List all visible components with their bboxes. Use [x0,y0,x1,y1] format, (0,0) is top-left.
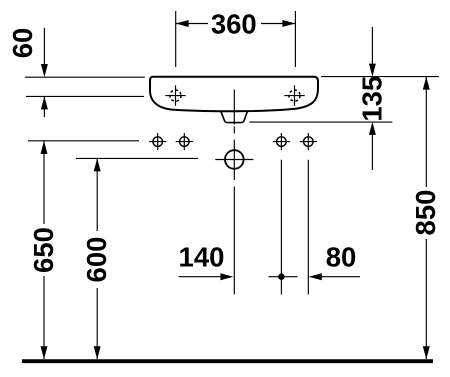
mounting hole 2 [176,133,193,150]
dimension 80 arrow [309,273,360,280]
tap level line left [26,95,144,97]
mounting hole 3 [273,133,290,150]
dimension 600 line lower [94,288,101,359]
dimension 360 line [176,20,296,27]
washbasin outline [150,77,318,112]
vertical line from hole 4 [307,160,309,295]
svg-text:600: 600 [81,237,112,283]
extension line left 360 [175,11,177,67]
tap hole right (dashed circle with cross) [284,85,304,105]
svg-text:80: 80 [326,241,357,272]
drain siphon cover [221,111,248,123]
dimension 850 line lower [423,239,430,359]
centerline dash [233,127,235,134]
mounting hole 4 [300,133,317,150]
dimension 650 line upper [41,141,48,224]
mounting hole 1 [149,133,166,150]
svg-text:135: 135 [356,76,387,122]
junction dot [278,273,285,280]
rim level line left [25,76,145,78]
floor line [22,359,433,363]
dimension 850 line upper [423,77,430,187]
water supply circle [215,140,253,181]
centerline lower segment [233,187,235,295]
rim level extension line right [321,76,439,78]
dimension 140 arrow [179,273,234,280]
dimension 135 upper arrow [369,27,376,77]
svg-text:60: 60 [7,28,38,59]
basin bottom extension line right [249,121,392,123]
dimension 600 line upper [94,158,101,231]
dimension 60 upper arrow [41,28,48,77]
supply level line left [76,157,198,159]
svg-text:650: 650 [28,227,59,273]
tick through junction dot [269,276,298,278]
svg-text:140: 140 [179,241,225,272]
svg-text:360: 360 [211,9,257,40]
dimension 135 lower arrow [369,122,376,170]
mounting holes level line left [28,140,139,142]
dimension 60 lower arrow [41,96,48,117]
dimension 650 line lower [41,276,48,359]
extension line right 360 [294,11,296,67]
svg-text:850: 850 [410,190,441,236]
centerline through drain [233,90,235,125]
vertical line from hole 3 [280,160,282,295]
tap hole left (dashed circle with cross) [165,85,185,105]
